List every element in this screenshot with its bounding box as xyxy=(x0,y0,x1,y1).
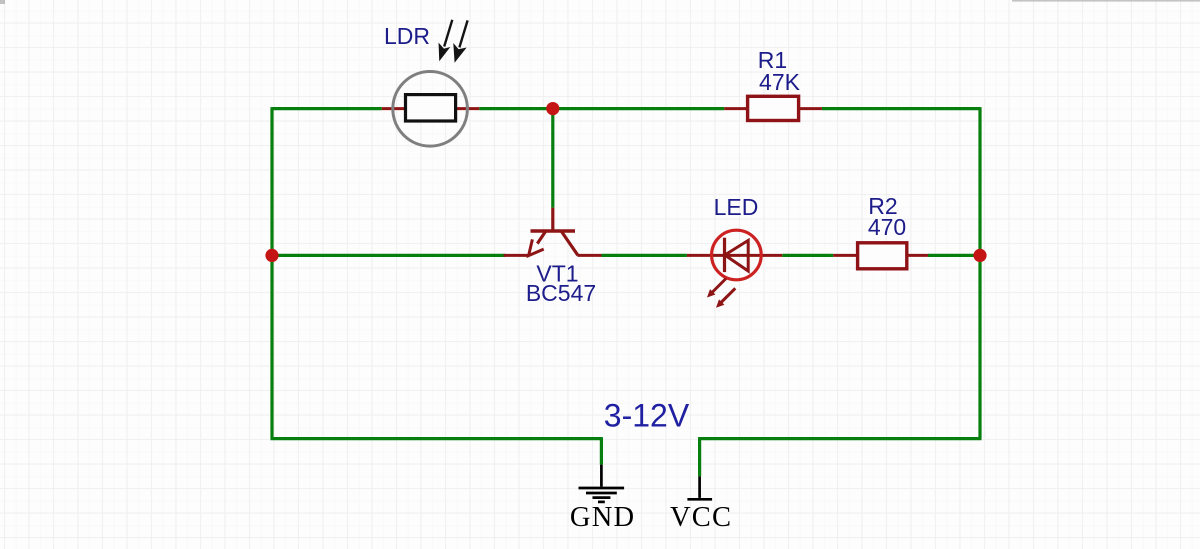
light arrow 2 into LDR xyxy=(454,20,468,61)
LED cathode bar xyxy=(723,238,726,272)
svg-text:470: 470 xyxy=(868,214,906,240)
ground symbol xyxy=(579,465,625,502)
resistor R1 body xyxy=(748,96,799,120)
resistor R1 left lead xyxy=(724,107,747,110)
svg-text:LED: LED xyxy=(714,194,759,220)
svg-text:LDR: LDR xyxy=(384,23,430,49)
LED triangle xyxy=(725,240,748,271)
svg-text:VCC: VCC xyxy=(670,502,732,533)
node junction dot top (base tap) xyxy=(546,102,559,115)
photoresistor LDR circle xyxy=(393,72,468,147)
wire middle net LED-to-R2 segment xyxy=(782,254,833,257)
photoresistor LDR right lead xyxy=(456,107,480,110)
wire bottom right (VCC tap to rail) xyxy=(700,437,982,440)
svg-text:3-12V: 3-12V xyxy=(604,398,690,434)
light arrow 1 into LDR xyxy=(439,20,452,60)
wire VCC drop green xyxy=(698,437,701,476)
wire top net middle segment xyxy=(479,107,724,110)
wire GND drop green xyxy=(600,437,603,465)
transistor VT1 base lead red xyxy=(551,208,554,231)
wire middle net R2-to-rail segment xyxy=(928,254,980,257)
photoresistor LDR left lead xyxy=(382,107,406,110)
resistor R1 right lead xyxy=(799,107,822,110)
wire bottom left (to GND tap) xyxy=(271,437,602,440)
wire right rail vertical xyxy=(978,107,981,439)
wire middle net transistor-to-LED segment xyxy=(602,254,687,257)
transistor VT1 base bar xyxy=(531,229,576,232)
transistor VT1 emitter stub xyxy=(504,254,529,257)
node junction dot left rail xyxy=(265,249,278,262)
transistor VT1 collector stub xyxy=(577,254,601,257)
svg-text:47K: 47K xyxy=(759,69,801,95)
wire left rail vertical xyxy=(270,107,273,439)
wire middle net left segment xyxy=(272,254,505,257)
transistor VT1 collector diagonal xyxy=(562,232,578,256)
svg-text:GND: GND xyxy=(570,502,635,533)
LED lead through xyxy=(687,254,782,257)
wire top net left segment xyxy=(272,107,382,110)
wire top net right segment xyxy=(822,107,980,110)
VCC power symbol xyxy=(687,476,712,499)
photoresistor LDR body rectangle xyxy=(406,95,456,121)
resistor R2 body xyxy=(858,243,907,269)
LED circle xyxy=(712,230,762,280)
node junction dot right rail xyxy=(973,249,986,262)
LED emission arrow 2 xyxy=(716,288,735,308)
transistor VT1 emitter shaft xyxy=(536,232,546,246)
resistor R2 right lead xyxy=(907,254,928,257)
svg-text:BC547: BC547 xyxy=(526,280,596,306)
wire base vertical green (junction to transistor) xyxy=(551,109,554,208)
transistor VT1 emitter arrowhead xyxy=(529,239,544,255)
LED emission arrow 1 xyxy=(707,279,726,298)
resistor R2 left lead xyxy=(833,254,857,257)
